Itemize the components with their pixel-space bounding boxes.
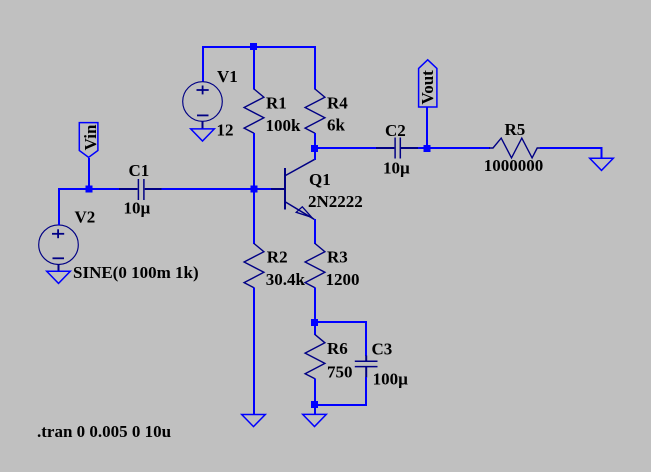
junction collector node: [311, 145, 318, 152]
svg-text:10µ: 10µ: [383, 158, 410, 177]
svg-text:R5: R5: [505, 120, 526, 139]
resistor R4: [305, 89, 325, 133]
svg-text:C1: C1: [129, 161, 150, 180]
wire R1 bottom: [253, 133, 255, 190]
wire R1 top: [253, 46, 255, 90]
wire C3 bottom: [365, 377, 367, 406]
wire collector row: [315, 147, 377, 149]
transistor Q1: [271, 159, 315, 219]
voltage source V2: [39, 225, 79, 271]
wire base row mid: [161, 188, 272, 190]
wire C2 to junction: [418, 147, 490, 149]
wire emitter: [314, 219, 316, 244]
junction R6 top node: [311, 319, 318, 326]
wire R4 bottom: [314, 133, 316, 149]
svg-text:C2: C2: [385, 121, 406, 140]
svg-text:R6: R6: [327, 339, 348, 358]
svg-text:10µ: 10µ: [124, 199, 151, 218]
wire V1 drop: [202, 46, 204, 82]
wire top rail: [202, 46, 316, 48]
svg-text:750: 750: [327, 362, 353, 381]
net flag Vin: [79, 123, 100, 158]
svg-text:Vin: Vin: [81, 124, 100, 150]
svg-text:V1: V1: [217, 67, 238, 86]
svg-text:SINE(0 100m 1k): SINE(0 100m 1k): [73, 263, 199, 282]
wire R2 bottom: [253, 288, 255, 415]
svg-text:100k: 100k: [266, 116, 302, 135]
wire R4 top: [314, 46, 316, 90]
wire R6 bottom: [314, 379, 316, 415]
wire Vout drop: [426, 107, 428, 149]
wire R3 bottom: [314, 288, 316, 323]
capacitor C3: [355, 356, 378, 378]
voltage source V1: [183, 82, 223, 129]
svg-text:R1: R1: [266, 94, 287, 113]
wire V2 top: [58, 188, 60, 225]
svg-text:2N2222: 2N2222: [308, 192, 363, 211]
wire collector stub: [314, 147, 316, 160]
svg-text:.tran 0 0.005 0 10u: .tran 0 0.005 0 10u: [37, 422, 171, 441]
svg-text:C3: C3: [372, 340, 393, 359]
capacitor C2: [376, 138, 419, 159]
svg-text:1000000: 1000000: [484, 156, 544, 175]
capacitor C1: [119, 179, 162, 200]
junction R6 bottom node: [311, 401, 318, 408]
resistor R2: [244, 244, 264, 288]
svg-text:6k: 6k: [327, 115, 346, 134]
svg-text:1200: 1200: [326, 270, 360, 289]
wire R2 top: [253, 188, 255, 244]
svg-text:R4: R4: [327, 94, 348, 113]
ground: [242, 415, 266, 427]
wire base row left: [59, 188, 120, 190]
wire C3 top rail: [315, 321, 367, 323]
junction Vout node: [424, 145, 431, 152]
svg-text:12: 12: [217, 121, 234, 140]
svg-text:R2: R2: [267, 247, 288, 266]
svg-text:R3: R3: [327, 247, 348, 266]
net flag Vout: [418, 60, 437, 107]
wire R5 to ground: [540, 148, 602, 158]
resistor R1: [244, 89, 264, 133]
resistor R5: [489, 138, 541, 158]
resistor R6: [305, 335, 325, 379]
svg-text:100µ: 100µ: [373, 370, 409, 389]
svg-text:V2: V2: [75, 208, 96, 227]
svg-text:Q1: Q1: [309, 170, 331, 189]
ground: [590, 158, 614, 170]
junction Vin node: [86, 186, 93, 193]
ground: [47, 271, 71, 283]
wire R6 top: [314, 322, 316, 335]
svg-text:Vout: Vout: [418, 70, 437, 105]
svg-text:30.4k: 30.4k: [266, 270, 306, 289]
ground: [191, 129, 215, 141]
wire C3 bottom rail: [315, 404, 367, 406]
wire C3 drop: [365, 321, 367, 356]
ground: [303, 414, 327, 426]
resistor R3: [305, 244, 325, 288]
junction top rail: [250, 43, 257, 50]
junction base node: [251, 186, 258, 193]
wire Vin drop: [88, 158, 90, 190]
